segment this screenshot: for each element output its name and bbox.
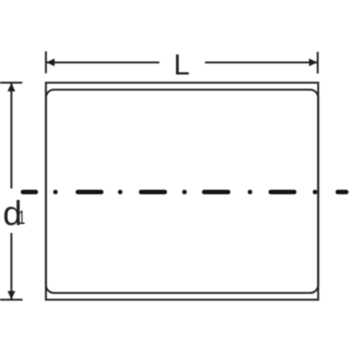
d1 dimension line, upper segment: [10, 83, 12, 189]
L dimension: right extension tick: [317, 52, 319, 74]
d1 dimension bottom arrowhead: [8, 291, 16, 299]
L dimension line, left segment: [46, 61, 159, 63]
pipe silhouette (inner rounded rectangle): [46, 90, 318, 293]
L dimension: left extension tick: [45, 51, 47, 73]
L dimension right arrowhead: [309, 59, 317, 67]
pipe body outline (outer rectangle): [46, 83, 318, 300]
centerline (dash-dot axis): [23, 190, 346, 195]
svg-text:L: L: [174, 50, 190, 82]
d1 dimension: bottom extension tick: [0, 299, 23, 301]
d1 dimension line, lower segment: [10, 233, 12, 300]
L dimension line, right segment: [205, 61, 318, 63]
svg-text:1: 1: [18, 208, 25, 229]
d1 dimension: top extension tick: [0, 82, 22, 84]
L dimension left arrowhead: [46, 59, 54, 67]
d1 dimension top arrowhead: [8, 83, 16, 91]
